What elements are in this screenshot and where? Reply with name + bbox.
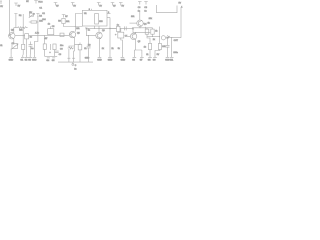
svg-text:10k: 10k [66, 21, 69, 23]
power flag F10 [144, 2, 148, 13]
svg-text:10k: 10k [162, 46, 165, 48]
component B3 inline on bus [117, 26, 121, 31]
wire Q3 collector to IC [98, 26, 100, 32]
wire bus drop x44.6 [44, 36, 46, 44]
power flag F5 [71, 3, 77, 8]
transistor Q4 [137, 20, 143, 28]
svg-text:5V: 5V [179, 3, 182, 5]
svg-text:2k: 2k [111, 48, 113, 50]
svg-text:GND: GND [32, 60, 37, 62]
svg-text:1k: 1k [0, 45, 2, 47]
svg-text:5V: 5V [113, 6, 116, 8]
wire R3 down [26, 39, 28, 55]
svg-text:5V: 5V [0, 6, 3, 8]
svg-text:VCC: VCC [38, 1, 43, 3]
ground G6b [140, 55, 144, 62]
svg-text:1k: 1k [148, 23, 150, 25]
svg-text:C: C [75, 65, 77, 67]
ground G1 [9, 55, 14, 62]
ground link line [45, 55, 58, 57]
resistor R2 [22, 44, 25, 49]
svg-text:1u: 1u [117, 25, 119, 27]
svg-text:1k: 1k [102, 48, 104, 50]
resistor R12 [145, 29, 149, 34]
resistor R8 [62, 18, 65, 23]
junction X right [132, 28, 134, 30]
junction dot rail [159, 36, 160, 37]
junction dot bus A [44, 35, 45, 36]
ground bar A [46, 58, 50, 62]
junction dot base [88, 35, 89, 36]
svg-text:R8: R8 [58, 21, 61, 23]
svg-text:555: 555 [99, 21, 103, 23]
junction dot out [152, 36, 153, 37]
wire right rail [180, 7, 182, 38]
resistor R6 inline [43, 44, 46, 50]
svg-text:5V: 5V [99, 6, 102, 8]
wire R6 down [44, 49, 46, 56]
wire R13 down [152, 34, 154, 36]
wire R2 to ground [22, 50, 24, 55]
wire R8 to IC pin [64, 24, 83, 27]
svg-text:C6: C6 [59, 54, 62, 56]
wire R9 to bus [79, 50, 81, 62]
net stub x15.9 [14, 14, 22, 28]
svg-text:10k: 10k [39, 21, 42, 23]
ground G12 [148, 55, 152, 62]
svg-text:5V: 5V [157, 54, 160, 56]
svg-text:Q2: Q2 [77, 32, 81, 34]
potentiometer RV1 [12, 44, 19, 50]
svg-text:G9: G9 [153, 60, 157, 62]
power flag F2 [14, 3, 21, 8]
svg-text:1k: 1k [84, 48, 86, 50]
wire x75.3 vertical [75, 14, 82, 32]
IC top pin [89, 9, 92, 11]
svg-text:1k: 1k [48, 23, 50, 25]
svg-text:10u: 10u [60, 45, 63, 47]
mid signal bus [15, 35, 69, 37]
svg-text:2k: 2k [153, 39, 155, 41]
IC inner block [95, 14, 99, 24]
svg-text:100n: 100n [173, 52, 177, 54]
svg-text:5V: 5V [26, 1, 29, 3]
plus mark B4 [115, 34, 117, 36]
svg-text:2u: 2u [74, 69, 76, 71]
out bus wire [147, 36, 160, 38]
ground G8 [97, 55, 102, 62]
resistor zigzag Q2 emitter [68, 47, 75, 49]
wire R12 top [146, 28, 148, 29]
svg-text:5V: 5V [56, 6, 59, 8]
ground G2 [20, 55, 24, 62]
resistor L1 [148, 44, 151, 50]
svg-text:5k: 5k [118, 48, 120, 50]
svg-text:10k: 10k [149, 18, 152, 20]
wire rail x23.2 [22, 14, 24, 44]
svg-text:OUT: OUT [174, 40, 179, 42]
power flag F9 [138, 2, 142, 13]
wire B4 down [121, 38, 123, 55]
power flag F8 [119, 3, 125, 8]
svg-text:1k: 1k [30, 36, 32, 38]
capacitor C-series bars [124, 26, 126, 30]
svg-text:C5: C5 [52, 26, 55, 28]
svg-text:1u: 1u [144, 10, 146, 12]
ground G10 [121, 55, 126, 62]
wire rail x110 [109, 18, 111, 55]
ground G15 [170, 52, 175, 61]
bus tick 1 [67, 57, 70, 59]
transistor Q5 [127, 33, 137, 50]
component B4 box [118, 32, 124, 38]
svg-text:G6: G6 [132, 60, 136, 62]
wire bus after B3 [120, 27, 133, 29]
svg-text:1k: 1k [146, 54, 148, 56]
component B2 inline [60, 33, 64, 36]
wire bus y28.4 right [110, 27, 117, 29]
polarized cap below bus [72, 62, 77, 71]
svg-text:1u: 1u [31, 48, 33, 50]
junction dot rail-bus [23, 35, 24, 36]
IC U1 box [82, 10, 107, 26]
junction plus [109, 28, 111, 30]
IC bottom pin stub [94, 26, 96, 29]
junction X out [167, 37, 169, 39]
svg-text:G4: G4 [46, 60, 50, 62]
wire rail x37.9 [36, 14, 39, 29]
ground G4 [28, 55, 32, 62]
capacitor C8 [166, 45, 170, 54]
svg-text:5V: 5V [73, 6, 76, 8]
svg-text:5V: 5V [122, 6, 125, 8]
bus tick 2 [72, 57, 75, 59]
transistor Q2 [69, 31, 76, 46]
wire second drop [171, 38, 173, 53]
transistor Q3 [96, 32, 102, 39]
component B1 [48, 26, 54, 34]
junction dot Q4 emitter [140, 27, 141, 28]
svg-text:4.7k: 4.7k [35, 33, 39, 35]
svg-text:10k: 10k [76, 28, 79, 30]
power flag F7 [111, 3, 117, 8]
svg-text:C8: C8 [144, 7, 147, 9]
svg-text:GND: GND [9, 60, 14, 62]
power flag F6 [97, 3, 103, 8]
resistor R13 [151, 29, 154, 34]
svg-text:G5: G5 [52, 60, 56, 62]
svg-text:C9: C9 [138, 7, 141, 9]
ground G9 [108, 55, 113, 62]
svg-text:Q3: Q3 [102, 30, 106, 32]
svg-text:R4: R4 [39, 15, 42, 17]
power flag F4 [54, 3, 60, 8]
wire RV1 to ground [10, 49, 12, 55]
resistor zigzag y27.6 [18, 27, 28, 29]
svg-text:5V: 5V [18, 6, 21, 8]
svg-text:GND: GND [85, 57, 90, 59]
transistor Q1 [9, 28, 15, 45]
junction dot drop [171, 37, 172, 38]
wire stub x50.5 [50, 44, 52, 50]
wire cap drop [167, 38, 169, 46]
junction X [85, 27, 87, 29]
wire B4 top [120, 28, 122, 32]
power flag F1 (left edge) [0, 1, 4, 8]
capacitor C7 vertical [87, 36, 91, 63]
wire rail bend to ground [34, 28, 38, 55]
svg-text:1k: 1k [144, 47, 146, 49]
wire Q4 base lead [130, 22, 137, 24]
wire L2 to ground [155, 50, 160, 53]
svg-text:C3: C3 [60, 48, 63, 50]
svg-text:1k: 1k [155, 31, 157, 33]
wire R12 down [147, 34, 150, 43]
junction dots rail [37, 16, 38, 17]
svg-text:R1: R1 [19, 15, 22, 17]
wire R9 top link [75, 43, 81, 45]
junction dot Q5 collector [135, 32, 136, 33]
resistor L2 [158, 44, 161, 50]
capacitor C2 [29, 42, 33, 55]
svg-text:10k: 10k [131, 16, 134, 18]
svg-text:1n: 1n [88, 30, 90, 32]
resistor R5 horizontal [29, 21, 38, 23]
svg-text:RV: RV [29, 12, 32, 14]
bottom bus [58, 61, 93, 63]
power flag P5b [62, 15, 69, 19]
wire Q3 emitter down [99, 39, 101, 55]
svg-text:C1: C1 [39, 8, 42, 10]
wire R13 top [152, 28, 154, 29]
ground G13 [153, 52, 157, 61]
trimmer RT1 [29, 13, 35, 18]
wire L1 to ground [149, 50, 151, 55]
wire Q5 emitter split [134, 50, 142, 55]
wire out right [166, 37, 181, 39]
wire R7 down [54, 50, 56, 57]
IC right pin 2 [107, 17, 110, 19]
ground bar B [52, 58, 56, 62]
wire rail x159.6 [159, 27, 161, 44]
resistor R3 inline on bus [25, 34, 29, 39]
svg-text:C1: C1 [42, 13, 45, 15]
diode arrows [167, 35, 170, 38]
wire Q1 collector top [14, 27, 18, 29]
svg-text:U1: U1 [84, 13, 87, 15]
ground G5 [32, 55, 37, 62]
svg-text:GND: GND [108, 60, 113, 62]
capacitor C6 [55, 51, 59, 53]
component B5 [161, 36, 165, 40]
junction plus right [145, 27, 147, 29]
wire Q2e to bus [73, 48, 76, 62]
svg-text:GND: GND [121, 60, 126, 62]
svg-text:10k: 10k [19, 30, 22, 32]
svg-text:5V: 5V [65, 16, 68, 18]
wire input drop [8, 0, 9, 36]
ground G11 [132, 55, 136, 62]
svg-text:GND: GND [97, 60, 102, 62]
svg-text:G11: G11 [170, 60, 175, 62]
IC right pin 1 [107, 12, 111, 14]
svg-text:G1: G1 [20, 60, 24, 62]
plus mark lower [49, 51, 51, 53]
wire y32.6 link [133, 29, 150, 33]
svg-text:104: 104 [42, 19, 46, 21]
wire top right U route [157, 5, 178, 13]
resistor R7 [53, 44, 56, 50]
junction dot [75, 26, 76, 27]
wire Q4 top [139, 11, 141, 20]
wire bus y28.4 [86, 27, 116, 29]
svg-text:1: 1 [181, 6, 183, 8]
junction dot Q3 top [98, 28, 99, 29]
power flag F3 [34, 1, 43, 10]
resistor R9 [78, 45, 82, 50]
svg-text:G8: G8 [148, 60, 152, 62]
ground G3 [25, 55, 29, 62]
ground G14 [165, 55, 170, 62]
wire Q3 base lead [86, 28, 95, 35]
svg-text:Q5: Q5 [138, 41, 142, 43]
svg-text:G7: G7 [140, 60, 144, 62]
wire Q2 emitter link [69, 46, 75, 48]
wire top right bus [133, 27, 153, 29]
wire zig to bus [68, 49, 70, 62]
